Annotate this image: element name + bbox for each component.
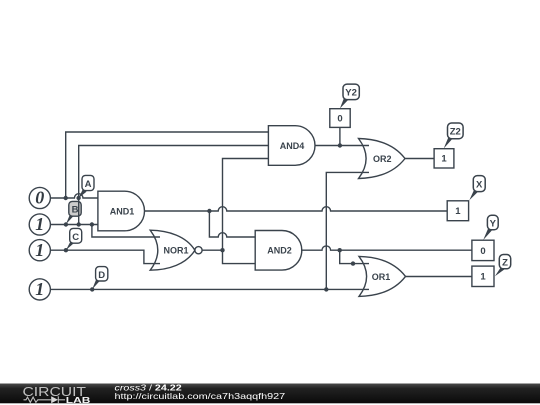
footer bar — [0, 384, 540, 404]
wire input 1 (second source) to AND1 input 2 — [50, 224, 98, 226]
svg-text:LAB: LAB — [66, 395, 91, 405]
svg-text:B: B — [72, 205, 79, 216]
junction dot label A attach — [76, 196, 80, 200]
junction dot label B attach — [64, 222, 68, 226]
svg-text:1: 1 — [35, 279, 44, 299]
svg-text:AND1: AND1 — [110, 206, 135, 216]
svg-text:AND2: AND2 — [267, 246, 292, 256]
svg-text:1: 1 — [455, 206, 461, 217]
wire NOR1 output up to AND4 input 3 — [223, 159, 269, 251]
svg-text:1: 1 — [441, 154, 447, 165]
svg-text:Z2: Z2 — [450, 127, 461, 138]
NOR gate NOR1 inversion bubble — [195, 247, 202, 254]
CircuitLab logo resistor zigzag and diode — [24, 396, 66, 403]
OR gate OR1 — [359, 256, 406, 296]
wire branch AND1 output down to AND2 input 1 (hop at x=222.5) — [209, 211, 255, 237]
wire NOR1 output to junction — [202, 249, 222, 251]
wire AND4 output to OR2 input 1 — [315, 145, 369, 147]
pointer wedge of label B — [66, 215, 73, 224]
junction dot D rail to OR2 vertical — [324, 287, 328, 291]
junction dot Y rail branch — [338, 248, 342, 252]
output flag Y — [483, 215, 498, 240]
output value box Z = 1 — [472, 266, 494, 286]
wire D rail (fourth source to OR1 input 2) — [50, 288, 369, 290]
output value box Y = 0 — [472, 240, 494, 260]
output flag Y2 — [340, 84, 359, 108]
junction dot rail2/input1 — [77, 222, 81, 226]
AND gate AND2 — [255, 231, 302, 271]
junction dot NOR1 branch — [90, 222, 94, 226]
wire OR2 output to Z2 box — [405, 158, 434, 160]
junction dot Y2 attach on AND4 output — [338, 143, 342, 147]
wire X rail (AND1 output to X box, hops at x=222.5 and x=326.3) — [145, 207, 447, 211]
logic input source S1 value 0 — [29, 187, 50, 208]
svg-text:1: 1 — [480, 272, 486, 283]
logic input source S3 value 1 — [29, 240, 50, 261]
junction dot label C attach — [64, 248, 68, 252]
junction dot NOR1 output — [220, 248, 224, 252]
output flag X — [469, 176, 485, 201]
logic input source S2 value 1 — [29, 214, 50, 235]
wire Y rail (AND2 output to Y box, hop at x=326.3) — [301, 246, 472, 250]
wire top rail 1 (net A to AND4 input 1) — [66, 132, 269, 198]
output value box X = 1 — [447, 201, 468, 221]
wire branch to NOR1 input 1 — [92, 225, 160, 238]
junction dot label D attach — [90, 287, 94, 291]
svg-text:C: C — [72, 232, 79, 243]
svg-text:1: 1 — [35, 214, 44, 234]
wire input 0 to AND1 input 1 (with hop over rail-2 vertical) — [50, 194, 98, 198]
junction dot rail1/input0 — [63, 196, 67, 200]
svg-text:0: 0 — [337, 113, 342, 124]
CircuitLab logo diode triangle — [51, 396, 58, 403]
svg-text:Y: Y — [490, 219, 497, 230]
svg-text:D: D — [98, 270, 105, 281]
svg-text:OR1: OR1 — [372, 272, 391, 282]
OR gate OR2 — [359, 139, 406, 179]
NOR gate NOR1 body — [150, 230, 195, 270]
junction dots — [63, 143, 355, 291]
output value box Y2 = 0 — [330, 109, 350, 128]
wire Y2 box attach — [339, 127, 341, 145]
AND gate AND4 (3-input) — [268, 126, 315, 166]
svg-text:Z: Z — [502, 258, 508, 269]
wire top rail 2 (net B to AND4 input 2) — [79, 146, 269, 225]
node label C — [66, 228, 82, 250]
svg-text:0: 0 — [35, 188, 44, 208]
output flag Z — [495, 255, 511, 277]
node label B (gray flag, drawn under wire) — [69, 201, 81, 216]
svg-text:X: X — [476, 180, 483, 191]
svg-text:http://circuitlab.com/ca7h3aqq: http://circuitlab.com/ca7h3aqqfh927 — [115, 392, 286, 401]
svg-text:AND4: AND4 — [280, 141, 305, 151]
junction dot OR1 input 1 wire — [351, 261, 355, 265]
wire input 1 (third source) to NOR1 input 2 — [50, 250, 160, 263]
wire OR2 input 2 vertical from D rail (hops drawn in crossing rails) — [326, 172, 369, 289]
node label A — [79, 175, 94, 198]
wire OR1 output to Z box — [405, 276, 472, 278]
output value box Z2 = 1 — [434, 149, 454, 168]
logic input source S4 value 1 — [29, 279, 50, 300]
wire NOR1 output down to AND2 input 2 — [223, 250, 256, 263]
svg-text:A: A — [85, 179, 92, 190]
svg-text:1: 1 — [35, 240, 44, 260]
junction dot AND1 output branch — [207, 209, 211, 213]
svg-text:Y2: Y2 — [345, 88, 357, 99]
wire Y rail branch to OR1 input 1 — [340, 250, 369, 263]
node label D — [92, 267, 108, 290]
svg-text:0: 0 — [480, 246, 485, 257]
svg-text:OR2: OR2 — [373, 154, 392, 164]
output flag Z2 — [444, 123, 463, 149]
svg-text:NOR1: NOR1 — [163, 246, 188, 256]
AND gate AND1 — [98, 191, 145, 231]
